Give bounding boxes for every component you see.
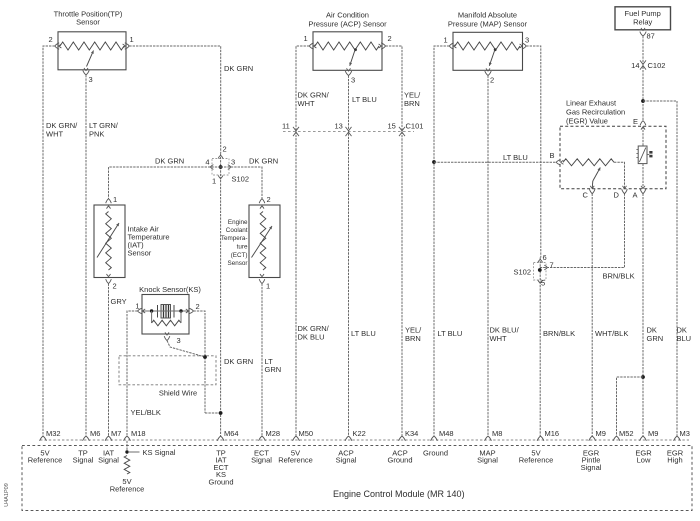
pin 87 of fuel pump relay	[640, 28, 655, 41]
label YEL/BRN lower on K34 wire	[405, 326, 422, 344]
pin 2 of IAT sensor	[106, 274, 117, 291]
shield wire dashed box	[119, 356, 216, 385]
label DK BLU on M3 wire	[677, 326, 692, 344]
pin 2 of knock sensor	[186, 302, 200, 314]
svg-text:M28: M28	[266, 429, 281, 438]
wire shield drain joins ground wire	[205, 412, 221, 414]
connector C101 dashed line	[283, 131, 414, 133]
ECM label EGR Pintle Signal	[581, 449, 602, 472]
svg-text:KS Signal: KS Signal	[143, 448, 176, 457]
label LT GRN on ECT wire	[265, 357, 282, 374]
svg-text:PNK: PNK	[89, 130, 104, 139]
thermistor inside ECT sensor	[252, 212, 273, 271]
svg-text:M7: M7	[111, 429, 121, 438]
svg-text:Ground: Ground	[387, 456, 412, 465]
label DK GRN/DK BLU lower on M50 wire	[298, 324, 330, 342]
svg-text:Signal: Signal	[73, 456, 94, 465]
svg-text:1: 1	[266, 282, 270, 291]
potentiometer inside MAP sensor	[455, 42, 520, 66]
connector C101 on wire 11	[282, 122, 299, 137]
wire MAP pin1 to M48 (LT BLU)	[434, 46, 449, 436]
svg-text:GRY: GRY	[111, 297, 127, 306]
svg-text:3: 3	[525, 36, 529, 45]
pin D of EGR valve	[614, 186, 628, 200]
svg-text:WHT: WHT	[298, 99, 315, 108]
ECM pin M9	[640, 429, 659, 441]
svg-text:Gas Recirculation: Gas Recirculation	[566, 108, 625, 117]
svg-text:S102: S102	[513, 268, 531, 277]
svg-text:Shield Wire: Shield Wire	[159, 389, 197, 398]
splice S102 lower dashed box	[534, 263, 547, 281]
svg-text:DK GRN: DK GRN	[224, 64, 253, 73]
svg-text:E: E	[633, 117, 638, 126]
svg-text:(ECT): (ECT)	[231, 252, 248, 259]
svg-text:Relay: Relay	[633, 18, 652, 27]
tick to KS Signal label	[129, 451, 140, 453]
svg-text:BRN/BLK: BRN/BLK	[603, 272, 635, 281]
svg-text:2: 2	[223, 145, 227, 154]
svg-text:2: 2	[267, 195, 271, 204]
svg-text:Reference: Reference	[278, 456, 313, 465]
ECM pin K34	[399, 429, 419, 441]
svg-text:LT BLU: LT BLU	[352, 95, 377, 104]
relay Fuel Pump box	[615, 7, 671, 30]
ECM pin M6	[83, 429, 101, 441]
thermistor inside IAT sensor	[97, 212, 119, 271]
pin 1 of ECT sensor	[259, 274, 270, 291]
svg-text:Reference: Reference	[519, 456, 554, 465]
ECM label 5V Reference	[278, 449, 313, 465]
svg-text:1: 1	[444, 36, 448, 45]
solenoid coil inside EGR valve	[636, 126, 652, 189]
pin 3 of MAP sensor	[520, 36, 530, 50]
ECM label 5V Reference	[28, 449, 63, 465]
svg-text:BRN: BRN	[405, 334, 421, 343]
svg-text:Linear Exhaust: Linear Exhaust	[566, 99, 617, 108]
svg-text:Sensor: Sensor	[76, 18, 100, 27]
pin 3 of ACP sensor	[345, 68, 355, 84]
svg-text:M8: M8	[492, 429, 502, 438]
wire branch to M52	[617, 377, 644, 436]
svg-text:U4A1P09: U4A1P09	[4, 483, 10, 507]
svg-text:Signal: Signal	[477, 456, 498, 465]
pin 1 of splice S102	[212, 175, 223, 185]
svg-text:M16: M16	[545, 429, 560, 438]
wire ACP pin2 to K34 (YEL/BRN)	[386, 46, 403, 436]
ECM pin M48	[431, 429, 454, 441]
resistor inside knock sensor	[152, 311, 181, 326]
connector C101 on wire 13	[335, 122, 352, 137]
ECM label Ground	[423, 449, 448, 458]
ECM pin M7	[105, 429, 121, 441]
svg-text:1: 1	[304, 34, 308, 43]
ECM connector face dashed line	[40, 439, 689, 441]
ECM pin K22	[345, 429, 366, 441]
svg-text:M3: M3	[680, 429, 690, 438]
svg-text:M6: M6	[90, 429, 100, 438]
pin 1 of MAP sensor	[444, 36, 457, 50]
svg-text:Pressure (ACP) Sensor: Pressure (ACP) Sensor	[308, 20, 387, 29]
wire MAP pin3 to splice S102 lower (BRN/BLK)	[526, 46, 541, 258]
svg-text:BRN/BLK: BRN/BLK	[543, 329, 575, 338]
pintle position potentiometer inside EGR valve	[563, 159, 625, 189]
label YEL/BRN on ACP ground wire	[404, 91, 421, 109]
wire ECT pin1 to M28 (LT GRN)	[261, 284, 263, 437]
svg-text:Engine Control Module (MR 140): Engine Control Module (MR 140)	[333, 489, 465, 499]
ECM pin M16	[537, 429, 559, 441]
svg-text:Reference: Reference	[110, 485, 145, 494]
svg-text:2: 2	[388, 34, 392, 43]
label DK GRN/WHT on M32 wire	[46, 121, 78, 139]
junction dot LT BLU branch	[432, 160, 436, 164]
svg-text:LT BLU: LT BLU	[351, 329, 376, 338]
svg-text:M9: M9	[596, 429, 606, 438]
wire TP pin3 to M6 (LT GRN/PNK)	[85, 75, 87, 436]
junction dot KS pin3 on drain wire	[203, 355, 207, 359]
pin 2 of MAP sensor	[485, 68, 494, 84]
junction dot drain to ground wire	[219, 411, 223, 415]
wire fuel pump relay pin87 down	[642, 36, 644, 121]
wire through lower splice S102 vertical	[539, 258, 541, 286]
junction dot inside splice S102	[219, 165, 223, 169]
potentiometer inside ACP sensor	[315, 42, 379, 66]
pin 2 of splice S102	[218, 145, 226, 159]
pin 5 of lower splice S102	[538, 279, 545, 288]
potentiometer inside TP sensor	[60, 42, 124, 67]
svg-text:1: 1	[113, 195, 117, 204]
svg-text:D: D	[614, 191, 620, 200]
svg-text:LT BLU: LT BLU	[438, 329, 463, 338]
svg-text:M9: M9	[648, 429, 658, 438]
label DK GRN on EGR low wire	[647, 326, 664, 344]
pin C of EGR valve	[583, 186, 596, 200]
svg-text:Ground: Ground	[423, 449, 448, 458]
pin A of EGR valve	[633, 186, 646, 200]
svg-text:6: 6	[543, 253, 547, 262]
wire S102 pin4 to IAT pin1 (DK GRN)	[109, 167, 221, 199]
wire TP pin2 to M32 (DK GRN/WHT)	[43, 46, 55, 436]
pin 1 of TP sensor	[123, 35, 134, 49]
pin 7 of lower splice S102	[544, 261, 553, 270]
junction dot inside lower splice S102	[538, 268, 542, 272]
svg-text:3: 3	[89, 75, 93, 84]
label DK BLU/WHT on MAP signal wire	[490, 326, 520, 344]
svg-text:4: 4	[205, 158, 209, 167]
ECM (Engine Control Module) dashed box	[22, 446, 692, 511]
svg-text:GRN: GRN	[647, 334, 664, 343]
pin 2 of ACP sensor	[379, 34, 392, 49]
ECM label ACP Signal	[336, 449, 357, 465]
junction dot right inside knock sensor	[179, 309, 182, 312]
sensor TP (Throttle Position) box	[54, 10, 126, 70]
svg-text:15: 15	[388, 122, 396, 131]
ECM label TP IAT ECT KS Ground	[208, 449, 233, 487]
svg-text:Ground: Ground	[208, 477, 233, 486]
svg-text:14: 14	[631, 61, 639, 70]
ECM pin M18	[124, 429, 146, 441]
svg-text:WHT: WHT	[46, 130, 63, 139]
ECM label IAT Signal	[98, 449, 119, 465]
svg-text:2: 2	[49, 35, 53, 44]
ECM pin M64	[217, 429, 238, 441]
wire S102 pin7 to EGR pin D (BRN/BLK)	[540, 194, 625, 268]
ECM pin M28	[259, 429, 280, 441]
wire S102 pin3 to ECT pin2 (DK GRN)	[221, 167, 262, 199]
svg-text:BLU: BLU	[677, 334, 692, 343]
svg-text:M48: M48	[439, 429, 454, 438]
sensor ECT (Engine Coolant Temperature) box	[221, 205, 280, 278]
svg-text:M50: M50	[299, 429, 314, 438]
wire KS pin3 diagonal to shield drain	[167, 341, 205, 358]
svg-text:K34: K34	[405, 429, 418, 438]
wire TP pin1 to splice S102 (DK GRN)	[129, 46, 221, 153]
pin 3 of splice S102	[228, 158, 235, 170]
svg-text:(EGR) Value: (EGR) Value	[566, 117, 608, 126]
svg-text:3: 3	[177, 336, 181, 345]
svg-text:GRN: GRN	[265, 365, 282, 374]
svg-text:K22: K22	[353, 429, 366, 438]
svg-text:2: 2	[490, 76, 494, 85]
wire EGR pin A to M9 EGR Low (DK GRN)	[642, 194, 644, 436]
wire KS pin2 shield drain down	[193, 311, 205, 413]
pin 3 of TP sensor	[83, 68, 93, 84]
pin E of EGR valve	[633, 117, 646, 130]
svg-text:ture: ture	[237, 244, 248, 251]
svg-text:DK BLU: DK BLU	[298, 333, 325, 342]
sensor KS (Knock Sensor) box	[139, 285, 201, 334]
junction dot left inside knock sensor	[150, 309, 153, 312]
svg-text:Reference: Reference	[28, 456, 63, 465]
svg-text:Fuel Pump: Fuel Pump	[625, 9, 661, 18]
svg-text:2: 2	[196, 302, 200, 311]
svg-text:87: 87	[647, 32, 655, 41]
ECM pin M50	[293, 429, 313, 441]
svg-text:M64: M64	[224, 429, 239, 438]
junction dot KS signal node	[125, 450, 128, 453]
sensor MAP (Manifold Absolute Pressure) box	[448, 11, 528, 71]
svg-text:B: B	[550, 151, 555, 160]
label DK GRN/WHT on ACP pin1 wire	[298, 91, 330, 109]
svg-text:Pressure (MAP) Sensor: Pressure (MAP) Sensor	[448, 20, 528, 29]
wire S102 pin1 to M64 ground (DK GRN)	[220, 180, 222, 436]
ECM pin M52	[613, 429, 633, 441]
svg-text:M18: M18	[131, 429, 146, 438]
pin 2 of TP sensor	[49, 35, 62, 49]
pin 6 of lower splice S102	[538, 253, 547, 263]
ECM label EGR Low	[635, 449, 652, 465]
pin B of EGR valve	[550, 151, 564, 165]
connector C102 on relay wire	[631, 60, 665, 70]
pin 4 of splice S102	[205, 158, 213, 170]
svg-text:M52: M52	[619, 429, 634, 438]
wire LT BLU branch to EGR pin B	[434, 161, 556, 163]
ECM label 5V Reference	[519, 449, 554, 465]
svg-text:11: 11	[282, 122, 290, 131]
ECM pin M8	[485, 429, 503, 441]
wire through splice S102 vertical	[220, 153, 222, 180]
ECM label ECT Signal	[251, 449, 272, 465]
svg-text:C102: C102	[648, 61, 666, 70]
wire ACP pin3 to K22 (LT BLU)	[348, 76, 350, 437]
svg-text:DK GRN: DK GRN	[155, 157, 184, 166]
pin 1 of IAT sensor	[106, 195, 117, 209]
wire branch to M3 (DK BLU)	[643, 101, 677, 436]
svg-text:BRN: BRN	[404, 99, 420, 108]
svg-text:Air Condition: Air Condition	[326, 11, 369, 20]
svg-text:Signal: Signal	[336, 456, 357, 465]
label LT GRN/PNK on M6 wire	[89, 121, 119, 139]
svg-text:3: 3	[351, 76, 355, 85]
svg-text:Sensor: Sensor	[128, 249, 152, 258]
junction dot fuel pump branch	[641, 99, 645, 103]
svg-text:WHT: WHT	[490, 334, 507, 343]
svg-text:5: 5	[541, 279, 545, 288]
svg-text:Signal: Signal	[251, 456, 272, 465]
svg-text:7: 7	[550, 261, 554, 270]
svg-text:C: C	[583, 191, 589, 200]
svg-text:C101: C101	[406, 122, 424, 131]
svg-text:Sensor: Sensor	[228, 260, 248, 267]
ECM label MAP Signal	[477, 449, 498, 465]
svg-text:1: 1	[212, 177, 216, 186]
svg-text:High: High	[667, 456, 682, 465]
pin 2 of ECT sensor	[259, 195, 270, 209]
svg-text:Knock Sensor(KS): Knock Sensor(KS)	[139, 285, 201, 294]
svg-text:DK GRN: DK GRN	[249, 157, 278, 166]
wire S102 pin5 to M16 (BRN/BLK)	[539, 285, 541, 436]
ECM label TP Signal	[73, 449, 94, 465]
splice S102 upper dashed box	[212, 159, 229, 176]
svg-text:M32: M32	[46, 429, 61, 438]
ECM label ACP Ground	[387, 449, 412, 465]
wire ACP pin1 to M50 (DK GRN/WHT then DK GRN/DK BLU)	[296, 46, 309, 436]
ECM pin M9	[589, 429, 606, 441]
svg-text:1: 1	[135, 302, 139, 311]
pin 1 of ACP sensor	[304, 34, 317, 49]
svg-text:1: 1	[130, 35, 134, 44]
junction dot EGR low branch	[641, 375, 645, 379]
svg-text:Coolant: Coolant	[226, 227, 248, 234]
connector C101 on wire 15	[388, 122, 406, 137]
resistor pull-up inside ECM	[124, 456, 130, 475]
wire KS pin1 to M18 (YEL/BLK)	[127, 311, 138, 436]
piezo crystal inside knock sensor	[158, 305, 175, 319]
svg-text:2: 2	[113, 282, 117, 291]
pin 1 of knock sensor	[135, 302, 145, 314]
svg-text:WHT/BLK: WHT/BLK	[595, 329, 628, 338]
svg-text:Manifold Absolute: Manifold Absolute	[458, 11, 517, 20]
svg-text:Tempera-: Tempera-	[221, 235, 248, 242]
sensor ACP (Air Condition Pressure) box	[308, 11, 387, 71]
svg-text:LT BLU: LT BLU	[503, 153, 528, 162]
svg-text:13: 13	[335, 122, 343, 131]
svg-text:3: 3	[231, 158, 235, 167]
svg-text:Low: Low	[637, 456, 651, 465]
pin 3 of knock sensor	[164, 332, 180, 345]
ECM pin M32	[40, 429, 61, 441]
wire across knock sensor element	[142, 310, 189, 312]
actuator EGR (Linear Exhaust Gas Recirculation) valve box	[560, 99, 666, 189]
svg-text:Signal: Signal	[98, 456, 119, 465]
wire MAP pin2 to M8 (DK BLU/WHT)	[487, 76, 489, 437]
sensor IAT (Intake Air Temperature) box	[94, 205, 170, 278]
svg-text:DK GRN: DK GRN	[224, 357, 253, 366]
svg-text:YEL/BLK: YEL/BLK	[131, 408, 161, 417]
wire EGR pin C to M9 (WHT/BLK)	[591, 194, 593, 436]
ECM pin M3	[674, 429, 690, 441]
wire IAT pin2 to M7 (GRY)	[108, 284, 110, 437]
svg-text:Engine: Engine	[228, 219, 248, 226]
svg-text:S102: S102	[232, 175, 250, 184]
ECM label EGR High	[667, 449, 684, 465]
svg-text:Signal: Signal	[581, 463, 602, 472]
ECM label 5V Reference below resistor	[110, 477, 145, 494]
svg-text:A: A	[633, 191, 638, 200]
wire M18 into ECM KS signal node	[126, 441, 128, 452]
